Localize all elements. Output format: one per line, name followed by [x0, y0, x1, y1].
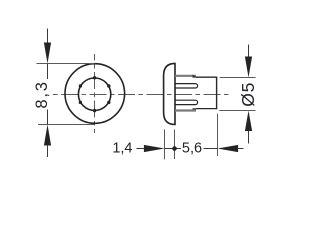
dimension 1,4 tail: [137, 148, 145, 150]
dimension 8,3 down arrow: [44, 43, 51, 64]
body top edge: [196, 76, 217, 78]
dimension 5,6 dot: [172, 146, 177, 151]
body top rib band: [175, 75, 196, 77]
outer circle (flange, front view): [65, 64, 125, 124]
hex vertex nub 210deg: [79, 101, 82, 104]
dimension D5 upper tail: [248, 45, 250, 58]
body bottom rib band: [175, 109, 196, 111]
dimension 5,6 line right: [204, 148, 218, 150]
dimension 8,3 lower tail: [47, 145, 49, 157]
dimension 8,3 up arrow: [44, 125, 51, 146]
bottom slot: [175, 100, 198, 104]
hex vertex nub 270deg: [93, 109, 96, 112]
svg-text:5,6: 5,6: [182, 140, 202, 156]
extension line head right: [174, 129, 176, 159]
hex vertex nub 30deg: [107, 84, 110, 87]
dimension 8,3 line middle lower: [47, 110, 49, 125]
vertical centerline: [94, 54, 96, 133]
extension line head left: [164, 129, 166, 159]
dimension 5,6 tail: [238, 148, 244, 150]
svg-text:8,3: 8,3: [33, 80, 51, 108]
bottom rib wedge: [193, 108, 199, 111]
dimension 8,3 line middle upper: [47, 64, 49, 80]
svg-text:Ø5: Ø5: [238, 82, 258, 107]
dimension D5 up arrow: [245, 111, 252, 132]
svg-text:1,4: 1,4: [112, 140, 132, 156]
hex vertex nub 150deg: [79, 84, 82, 87]
body right end edge: [216, 77, 218, 110]
dimension 8,3 bottom extension line: [38, 124, 95, 126]
dimension 5,6 left arrow: [218, 145, 239, 152]
dimension 8,3 line upper tail: [47, 29, 49, 43]
extension line body end: [217, 114, 219, 156]
dimension D5 top extension line: [220, 77, 256, 79]
dimension D5 bottom extension line: [219, 110, 255, 112]
dimension 1,4 right arrow: [144, 145, 165, 152]
inner circle (hole, front view): [78, 78, 110, 110]
top slot: [175, 84, 198, 88]
dimension D5 down arrow: [245, 57, 252, 78]
top rib wedge: [193, 75, 199, 78]
rivet head (side view): [164, 63, 175, 124]
dimension 8,3 top extension line: [37, 63, 95, 65]
horizontal centerline: [53, 94, 229, 96]
dimension line between: [165, 148, 182, 150]
hex vertex nub 90deg: [93, 76, 96, 79]
dimension D5 lower tail: [248, 131, 250, 144]
body bottom edge: [196, 108, 217, 110]
hex vertex nub 330deg: [107, 101, 110, 104]
